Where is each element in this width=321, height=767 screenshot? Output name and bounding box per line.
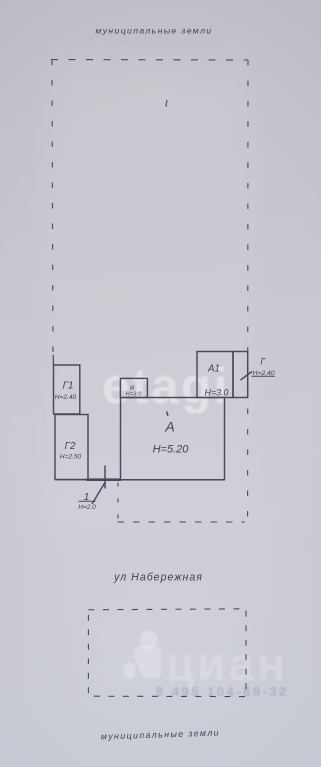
svg-text:А: А <box>164 419 174 435</box>
bottom parcel dashed rectangle <box>88 609 246 697</box>
boundary dash above G1 corner <box>52 355 54 365</box>
building A (main) <box>121 398 225 480</box>
small tick inside A <box>167 412 169 417</box>
svg-text:Н=3.0: Н=3.0 <box>205 388 229 398</box>
building G (narrow, right of A1) <box>233 352 248 398</box>
svg-text:а: а <box>130 382 134 391</box>
gate line 1 <box>104 466 106 489</box>
svg-text:ул Набережная: ул Набережная <box>113 572 203 584</box>
bottom wall line <box>55 479 225 481</box>
svg-text:Н=2.50: Н=2.50 <box>60 454 82 461</box>
boundary connector below buildings (dashed) <box>117 483 119 523</box>
svg-text:Н=2.0: Н=2.0 <box>78 504 96 511</box>
svg-text:Г1: Г1 <box>63 381 74 392</box>
svg-text:циан: циан <box>166 638 288 690</box>
svg-text:Н=2.40: Н=2.40 <box>252 370 274 377</box>
svg-text:муниципальные земли: муниципальные земли <box>96 26 213 36</box>
svg-text:муниципальные земли: муниципальные земли <box>101 727 220 741</box>
boundary bottom edge (dashed) <box>118 521 246 523</box>
svg-text:Г: Г <box>260 356 266 366</box>
leader line for label 1 <box>92 483 105 505</box>
building A1 <box>197 352 233 398</box>
thick wall segment between G2 and A <box>87 478 122 481</box>
small tick mark upper area <box>166 100 167 107</box>
boundary top edge (dashed) <box>51 59 248 62</box>
boundary right edge (dashed) <box>247 60 249 522</box>
building G1 <box>54 365 80 414</box>
building G2 <box>55 415 88 480</box>
svg-text:Н=2.40: Н=2.40 <box>55 394 77 401</box>
leader line for label G <box>241 372 253 381</box>
svg-text:1: 1 <box>84 492 90 503</box>
underline of label G annotation <box>252 375 276 377</box>
svg-text:А1: А1 <box>207 363 220 374</box>
underline of label 1 <box>79 500 96 502</box>
svg-text:Г2: Г2 <box>65 441 76 452</box>
svg-text:Н=3.0: Н=3.0 <box>126 391 142 397</box>
svg-text:8 495 104-69-32: 8 495 104-69-32 <box>156 684 289 699</box>
boundary left edge (dashed) <box>52 60 53 365</box>
svg-text:Н=5.20: Н=5.20 <box>153 443 190 455</box>
building a (small) <box>120 378 147 397</box>
watermark cian pin logo <box>123 631 161 679</box>
